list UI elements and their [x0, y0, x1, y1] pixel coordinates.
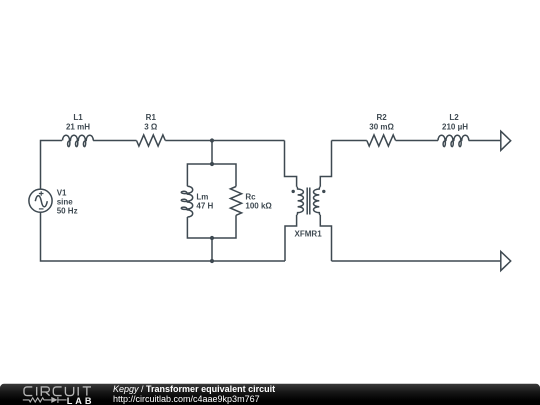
- terminal top output: [501, 131, 511, 150]
- svg-text:R2: R2: [376, 113, 387, 122]
- wire L1 to R1: [93, 140, 136, 142]
- svg-text:47 H: 47 H: [196, 202, 213, 211]
- svg-text:http://circuitlab.com/c4aae9kp: http://circuitlab.com/c4aae9kp3m767: [113, 394, 260, 404]
- resistor R2: [367, 135, 396, 146]
- svg-text:LAB: LAB: [67, 396, 95, 405]
- svg-text:sine: sine: [57, 197, 74, 206]
- resistor R1: [137, 135, 166, 146]
- footer bar: [0, 384, 540, 405]
- svg-text:L1: L1: [73, 113, 83, 122]
- wire bottom rail right: [332, 260, 501, 262]
- node junction block top: [210, 162, 214, 166]
- svg-text:R1: R1: [146, 113, 157, 122]
- wire bottom rail left: [41, 212, 286, 261]
- wire transformer secondary top lead: [320, 141, 331, 187]
- logo CIRCUIT: [24, 387, 91, 396]
- svg-text:50 Hz: 50 Hz: [57, 206, 78, 215]
- terminal bottom output: [501, 252, 511, 271]
- wire transformer primary top lead: [285, 141, 297, 187]
- inductor L2: [438, 135, 469, 146]
- wire top rail left: source to L1: [41, 141, 63, 190]
- node junction bottom rail: [210, 259, 214, 263]
- wire transformer primary bottom lead: [285, 215, 297, 261]
- wire parallel block top rail: [187, 164, 236, 187]
- wire L2 to output terminal: [469, 140, 501, 142]
- wire R2 to L2: [396, 140, 438, 142]
- svg-text:30 mΩ: 30 mΩ: [369, 123, 394, 132]
- node junction at top rail: [210, 138, 214, 142]
- voltage source V1: [29, 189, 52, 212]
- phase dot primary: [292, 190, 295, 193]
- svg-text:3 Ω: 3 Ω: [144, 123, 158, 132]
- transformer core: [307, 188, 310, 215]
- wire parallel block bottom rail: [187, 215, 236, 238]
- wire secondary top to R2: [332, 140, 367, 142]
- inductor L1: [63, 135, 94, 146]
- phase dot secondary: [322, 190, 325, 193]
- inductor Lm: [181, 186, 192, 217]
- transformer XFMR1 secondary winding: [313, 187, 320, 215]
- resistor Rc: [230, 187, 241, 216]
- svg-text:Rc: Rc: [245, 193, 256, 202]
- svg-text:Lm: Lm: [196, 193, 208, 202]
- node junction block bottom: [210, 236, 214, 240]
- transformer XFMR1 primary winding: [297, 187, 304, 215]
- svg-text:210 µH: 210 µH: [442, 123, 468, 132]
- svg-text:V1: V1: [57, 188, 67, 197]
- wire transformer secondary bottom lead: [320, 215, 331, 261]
- svg-text:XFMR1: XFMR1: [295, 230, 323, 239]
- logo schematic line with resistor and diode: [23, 397, 67, 403]
- svg-text:L2: L2: [449, 113, 459, 122]
- wire R1 to transformer, node at x=212: [165, 140, 284, 142]
- svg-text:21 mH: 21 mH: [66, 123, 90, 132]
- svg-text:Kepgy / Transformer equivalent: Kepgy / Transformer equivalent circuit: [113, 384, 275, 394]
- svg-text:100 kΩ: 100 kΩ: [245, 202, 272, 211]
- wire node A drop to parallel block: [211, 141, 213, 165]
- wire block bottom to bottom rail: [211, 238, 213, 261]
